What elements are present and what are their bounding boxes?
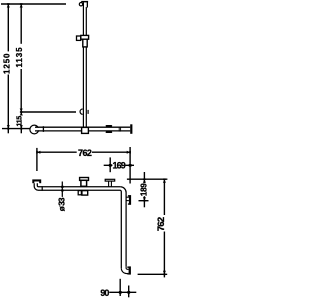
dimension line 1250	[7, 4, 9, 51]
arrowhead 90 left	[119, 291, 122, 294]
extension line 90 left	[119, 279, 121, 296]
joint line right B	[120, 127, 122, 132]
bar right end plate	[130, 124, 132, 134]
arrowhead 169 right	[129, 164, 132, 167]
arrowhead 115 bottom	[20, 125, 23, 129]
bar tube interior (white)	[35, 128, 130, 131]
leg2 bottom bend inner edge	[126, 267, 129, 270]
extension line 762 left	[36, 148, 38, 171]
arrowhead 169 left	[109, 164, 112, 167]
wall reference extension line	[127, 178, 167, 180]
horizontal bar: wall flange ring (left end)	[30, 125, 39, 134]
plan left wall flange plate	[32, 179, 41, 183]
arrowhead 1250 top	[7, 4, 10, 8]
arrowhead 762 right	[127, 151, 131, 154]
svg-text:762: 762	[78, 148, 92, 158]
diameter leader line	[61, 182, 63, 197]
extension line 90 right	[128, 286, 130, 298]
extension line top	[1, 3, 66, 5]
arrowhead 90 right	[127, 291, 130, 294]
svg-text:1250: 1250	[2, 53, 11, 74]
arrowhead 1135 top	[20, 4, 23, 8]
extension line mid (clamp reference)	[21, 111, 76, 113]
arrowhead 762R top	[163, 179, 166, 183]
wall clamp ring left arc	[80, 109, 83, 114]
support clamp upper bump	[106, 125, 113, 127]
slider main block	[81, 35, 89, 39]
joint line right A	[118, 127, 120, 132]
dimension line 169	[104, 164, 113, 166]
svg-text:90: 90	[100, 288, 109, 298]
wall clamp right tick	[88, 110, 89, 114]
rail tube right edge lower	[85, 47, 87, 127]
plan slider right block	[82, 191, 88, 196]
svg-text:169: 169	[113, 161, 126, 171]
corner outer arc to leg right edge	[120, 187, 126, 267]
extension line bottom (bar axis reference)	[2, 128, 30, 130]
vertical shower rail: top hook	[81, 1, 88, 8]
arrowhead 762 left	[37, 151, 41, 154]
extension line corner (762/169 right)	[129, 147, 131, 184]
rail tube right edge	[85, 7, 87, 36]
dimension line 189	[143, 172, 145, 183]
svg-text:189: 189	[139, 183, 148, 196]
plan support leg1 stem	[108, 181, 110, 187]
svg-text:1135: 1135	[15, 47, 24, 68]
extension line 189 bottom	[139, 200, 149, 202]
plan left stem inner edge + bend	[37, 183, 120, 187]
arrowhead 189 top	[143, 179, 146, 183]
top hook knob ring	[79, 2, 82, 5]
plan support leg1 plate	[105, 179, 115, 181]
bar tube top edge	[35, 126, 130, 128]
dimension line 115	[20, 112, 22, 115]
svg-text:762: 762	[156, 217, 167, 231]
joint line plan left	[41, 186, 43, 191]
support leg2 stem	[126, 196, 129, 198]
dimension line 1135	[20, 4, 22, 44]
svg-text:ø 33: ø 33	[56, 197, 66, 211]
corner inner arc to leg left edge	[120, 190, 121, 268]
bar tube bottom edge	[35, 130, 130, 132]
leg2 bottom end plate	[129, 266, 131, 274]
arrowhead 1250 bottom	[7, 125, 10, 129]
dimension line 762 right	[163, 179, 165, 215]
dimension line 90	[109, 291, 136, 293]
slider holder	[83, 39, 87, 47]
junction box	[82, 127, 89, 133]
svg-text:115: 115	[16, 116, 23, 127]
dimension line 762 top	[37, 151, 77, 153]
support clamp lower bump	[106, 131, 113, 133]
rail tube left edge lower	[82, 47, 84, 127]
arrowhead 1135 bottom / 115 top	[20, 109, 23, 113]
slider knob	[77, 36, 81, 40]
plan shower-rail plate	[80, 178, 89, 181]
plan left stem + bend outer edge	[34, 183, 120, 190]
leg2 bottom bend outer edge	[121, 268, 128, 273]
joint line left	[42, 126, 44, 132]
extension line 169 left	[109, 157, 111, 172]
rail tube left edge	[82, 2, 84, 35]
arrowhead 762R bottom	[163, 271, 166, 275]
extension line 762 bottom	[138, 273, 168, 275]
plan slider left block	[78, 191, 81, 195]
arrowhead 189 bottom	[143, 197, 146, 201]
support leg2 plate	[129, 195, 131, 205]
plan shower-rail stem	[81, 180, 87, 186]
